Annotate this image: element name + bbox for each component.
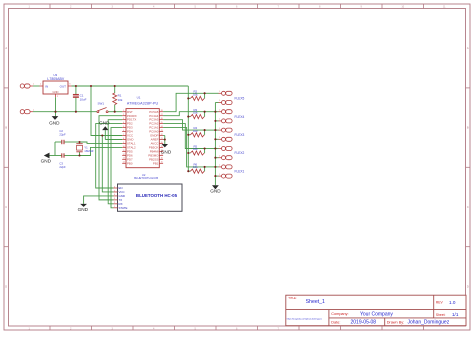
svg-text:4: 4: [123, 122, 124, 124]
svg-text:10k: 10k: [193, 165, 198, 169]
svg-text:SW1: SW1: [98, 102, 105, 106]
svg-text:11: 11: [123, 150, 125, 152]
svg-text:2: 2: [114, 202, 115, 204]
svg-text:1: 1: [219, 155, 220, 157]
svg-text:6: 6: [123, 130, 124, 132]
svg-text:B: B: [5, 126, 7, 130]
svg-text:OUT: OUT: [60, 85, 67, 89]
svg-text:FLEX5: FLEX5: [235, 97, 245, 101]
svg-text:U1: U1: [137, 96, 141, 100]
svg-text:10: 10: [123, 146, 125, 148]
svg-text:10k: 10k: [193, 92, 198, 96]
svg-text:1: 1: [219, 146, 220, 148]
svg-text:ATMEGA328P-PU: ATMEGA328P-PU: [127, 101, 159, 105]
svg-text:C: C: [467, 205, 469, 209]
svg-text:10k: 10k: [193, 129, 198, 133]
svg-text:GND: GND: [78, 207, 89, 212]
svg-text:13: 13: [123, 158, 125, 160]
svg-text:Company:: Company:: [331, 312, 348, 316]
svg-text:Your Company: Your Company: [360, 311, 393, 317]
svg-text:C: C: [5, 205, 7, 209]
svg-text:21: 21: [161, 138, 163, 140]
svg-text:1: 1: [219, 174, 220, 176]
svg-text:1.0: 1.0: [449, 300, 456, 305]
svg-text:1: 1: [123, 110, 124, 112]
svg-text:10uF: 10uF: [80, 97, 87, 101]
svg-text:A: A: [5, 46, 7, 50]
svg-text:25: 25: [161, 122, 163, 124]
svg-text:3: 3: [114, 198, 115, 200]
svg-text:B: B: [467, 126, 469, 130]
svg-text:7: 7: [123, 134, 124, 136]
svg-text:GND: GND: [99, 121, 110, 126]
svg-text:1: 1: [219, 100, 220, 102]
svg-text:15: 15: [161, 162, 163, 164]
svg-text:19: 19: [161, 146, 163, 148]
svg-text:16: 16: [161, 158, 163, 160]
svg-text:https://easyeda.com/johan.domi: https://easyeda.com/johan.dominguez: [287, 318, 322, 321]
svg-text:L7805ABV: L7805ABV: [47, 77, 64, 81]
svg-text:28: 28: [161, 110, 163, 112]
svg-text:BLUETOOTH HC-05: BLUETOOTH HC-05: [136, 193, 178, 198]
svg-text:14: 14: [123, 162, 125, 164]
svg-text:Date:: Date:: [331, 320, 340, 324]
svg-text:Sheet_1: Sheet_1: [306, 299, 325, 305]
svg-text:STATE: STATE: [119, 206, 128, 210]
svg-text:23: 23: [161, 130, 163, 132]
svg-text:TITLE:: TITLE:: [288, 296, 297, 300]
svg-text:Drawn By:: Drawn By:: [387, 320, 405, 324]
svg-text:8: 8: [123, 138, 124, 140]
svg-text:1: 1: [219, 137, 220, 139]
svg-text:GND: GND: [161, 149, 172, 154]
svg-text:D: D: [467, 284, 469, 288]
svg-text:4: 4: [114, 194, 115, 196]
svg-text:1: 1: [219, 128, 220, 130]
svg-text:GND: GND: [53, 90, 59, 94]
svg-text:IN: IN: [45, 85, 48, 89]
svg-text:5: 5: [123, 126, 124, 128]
svg-text:BLUETOOTH HC05: BLUETOOTH HC05: [134, 176, 158, 180]
svg-text:FLEX2: FLEX2: [235, 151, 245, 155]
svg-text:20: 20: [161, 142, 163, 144]
svg-text:GND: GND: [41, 158, 52, 163]
svg-text:16MHZ: 16MHZ: [84, 149, 93, 153]
svg-text:1/1: 1/1: [452, 312, 459, 317]
svg-text:1: 1: [219, 91, 220, 93]
svg-text:REV: REV: [436, 301, 444, 305]
svg-text:6: 6: [114, 186, 115, 188]
svg-text:22pF: 22pF: [59, 132, 66, 136]
svg-text:1: 1: [33, 84, 34, 86]
svg-text:2: 2: [123, 114, 124, 116]
svg-text:1: 1: [33, 109, 34, 111]
svg-text:PB1: PB1: [153, 161, 159, 165]
svg-text:22pF: 22pF: [59, 165, 66, 169]
svg-text:Johan_Dominguez: Johan_Dominguez: [408, 320, 450, 326]
svg-text:1: 1: [219, 119, 220, 121]
svg-text:27: 27: [161, 114, 163, 116]
svg-text:1: 1: [219, 165, 220, 167]
svg-text:Sheet:: Sheet:: [436, 313, 446, 317]
svg-text:3: 3: [123, 118, 124, 120]
svg-text:FLEX1: FLEX1: [235, 169, 245, 173]
svg-text:FLEX3: FLEX3: [235, 133, 245, 137]
svg-text:26: 26: [161, 118, 163, 120]
svg-text:1: 1: [114, 206, 115, 208]
svg-text:22: 22: [161, 134, 163, 136]
svg-text:10k: 10k: [193, 147, 198, 151]
svg-text:GND: GND: [49, 121, 60, 126]
svg-text:9: 9: [123, 142, 124, 144]
svg-text:24: 24: [161, 126, 163, 128]
svg-text:D: D: [5, 284, 7, 288]
svg-text:FLEX4: FLEX4: [235, 115, 245, 119]
svg-text:PB0: PB0: [127, 161, 133, 165]
svg-text:10k: 10k: [118, 98, 123, 102]
svg-text:5: 5: [114, 190, 115, 192]
svg-text:GND: GND: [210, 189, 221, 194]
svg-text:2019-05-08: 2019-05-08: [351, 320, 377, 326]
svg-text:12: 12: [123, 154, 125, 156]
svg-text:10k: 10k: [193, 111, 198, 115]
svg-text:1: 1: [219, 109, 220, 111]
svg-text:A: A: [467, 46, 469, 50]
